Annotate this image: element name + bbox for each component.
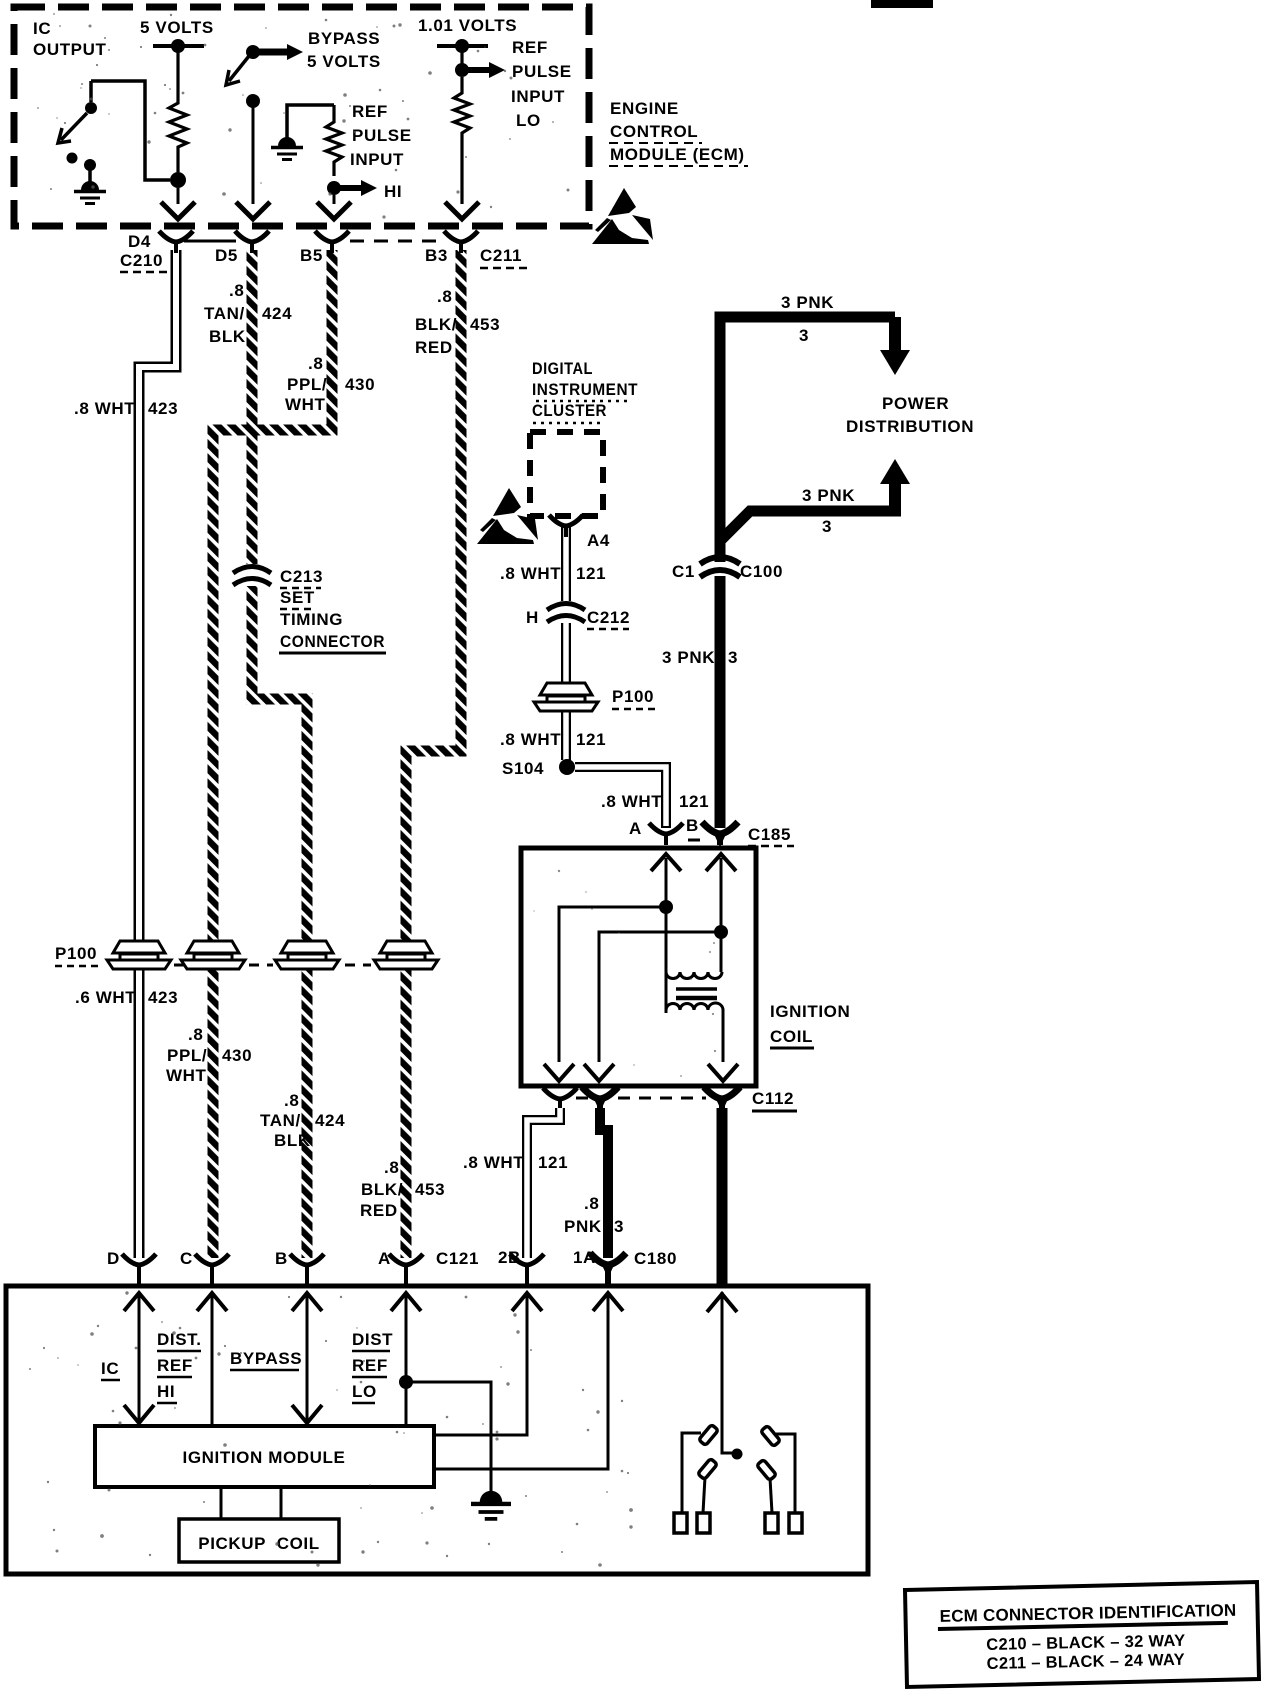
ignition coil box: [521, 848, 756, 1086]
svg-text:WHT: WHT: [166, 1066, 207, 1085]
arrow up (BYPASS): [292, 1293, 322, 1311]
cap terminal 2: [697, 1513, 710, 1533]
svg-text:A4: A4: [587, 531, 610, 550]
wire 3 PNK main feed (thick): [720, 317, 901, 541]
svg-text:.6 WHT: .6 WHT: [75, 988, 136, 1007]
resistor R1 (5 volts pull-up): [169, 49, 187, 172]
arrow down (coil second terminal): [584, 1064, 614, 1081]
svg-text:DIST.: DIST.: [157, 1330, 202, 1349]
wire cap terminal 4: [776, 1434, 795, 1513]
svg-text:D5: D5: [215, 246, 238, 265]
svg-text:C1: C1: [672, 562, 695, 581]
svg-text:IC: IC: [101, 1359, 119, 1378]
svg-text:5 VOLTS: 5 VOLTS: [307, 52, 381, 71]
svg-text:CLUSTER: CLUSTER: [532, 401, 607, 420]
arrow to power distribution (upper): [889, 317, 901, 352]
svg-text:TAN/: TAN/: [260, 1111, 301, 1130]
svg-text:D4: D4: [128, 232, 151, 251]
svg-text:423: 423: [148, 399, 178, 418]
svg-text:RED: RED: [415, 338, 453, 357]
wire cap terminal 3: [770, 1478, 772, 1513]
grommet P100 (cluster wire): [534, 683, 598, 711]
connector D5: [235, 231, 269, 253]
svg-text:B5: B5: [300, 246, 323, 265]
svg-text:IGNITION MODULE: IGNITION MODULE: [183, 1448, 346, 1467]
connector C1 / C100: [706, 562, 736, 576]
wire 121 .8 WHT cluster to S104 (double line): [561, 525, 571, 760]
cap terminal 4: [789, 1513, 802, 1533]
svg-text:.8 WHT: .8 WHT: [500, 730, 561, 749]
arrow up (tower lead): [707, 1294, 737, 1312]
wire .8 PNK C112 to 1A (thick): [600, 1108, 608, 1258]
svg-text:CONTROL: CONTROL: [610, 122, 698, 141]
wire 424 .8 TAN/BLK (hatched) from D5: [252, 250, 307, 1258]
svg-text:3: 3: [822, 517, 832, 536]
svg-text:C211: C211: [480, 246, 522, 265]
wire 453 .8 BLK/RED (hatched) from B3: [406, 250, 461, 1258]
arrow up (DIST REF HI): [197, 1293, 227, 1311]
svg-text:CONNECTOR: CONNECTOR: [280, 632, 385, 651]
wire 423 .8 WHT (double line) from D4: [139, 250, 176, 1258]
wire link D4-D5: [184, 240, 236, 243]
connector C121 pin B: [290, 1254, 324, 1276]
arrow down (BYPASS): [292, 1405, 322, 1423]
wire module to pickup coil (right): [280, 1487, 283, 1519]
rotor center: [732, 1449, 743, 1460]
svg-text:C121: C121: [436, 1249, 479, 1268]
dashed links between grommets: [174, 964, 184, 967]
svg-text:DISTRIBUTION: DISTRIBUTION: [846, 417, 974, 436]
connector C121 pin C: [195, 1254, 229, 1276]
wire 121 .8 WHT S104 to C185-A (double line): [575, 767, 666, 828]
rotor contact lower-right: [757, 1459, 777, 1480]
svg-text:430: 430: [222, 1046, 252, 1065]
arrow down (coil tower terminal): [708, 1064, 738, 1081]
svg-text:.8 WHT: .8 WHT: [463, 1153, 524, 1172]
svg-text:MODULE (ECM): MODULE (ECM): [610, 145, 745, 164]
svg-text:430: 430: [345, 375, 375, 394]
arrow down (pin B5 inside ECM): [317, 202, 351, 219]
connector C112 right: [704, 1087, 740, 1112]
wire module to 2B: [434, 1292, 527, 1435]
svg-text:ENGINE: ENGINE: [610, 99, 679, 118]
dashed link A-B: [688, 839, 700, 842]
connector B3 of C211: [444, 231, 478, 253]
wire cap terminal 2: [703, 1477, 705, 1513]
svg-text:REF: REF: [512, 38, 548, 57]
svg-text:453: 453: [415, 1180, 445, 1199]
svg-text:DIST: DIST: [352, 1330, 393, 1349]
svg-text:LO: LO: [352, 1382, 377, 1401]
svg-text:3 PNK: 3 PNK: [781, 293, 834, 312]
svg-text:B: B: [686, 816, 699, 835]
svg-text:.8 WHT: .8 WHT: [601, 792, 662, 811]
svg-text:INPUT: INPUT: [350, 150, 404, 169]
svg-text:IGNITION: IGNITION: [770, 1002, 850, 1021]
connector C180 pin 1A: [590, 1253, 626, 1278]
connector D4 of C210: [159, 231, 193, 253]
arrow down (IC): [124, 1405, 154, 1423]
wire to internal ground: [406, 1382, 491, 1500]
svg-text:3 PNK: 3 PNK: [802, 486, 855, 505]
svg-text:REF: REF: [352, 102, 388, 121]
svg-text:P100: P100: [55, 944, 97, 963]
svg-text:WHT: WHT: [285, 395, 326, 414]
wire coil tower to distributor (thick): [717, 1108, 728, 1286]
svg-text:PULSE: PULSE: [352, 126, 412, 145]
wire coil B lead: [720, 858, 723, 972]
coil primary winding: [666, 972, 722, 979]
svg-text:3 PNK: 3 PNK: [662, 648, 715, 667]
svg-text:REF: REF: [352, 1356, 388, 1375]
svg-text:.8: .8: [284, 1091, 299, 1110]
svg-text:B: B: [275, 1249, 288, 1268]
connector C121 pin D: [122, 1254, 156, 1276]
svg-text:2B: 2B: [498, 1248, 521, 1267]
svg-text:OUTPUT: OUTPUT: [33, 40, 106, 59]
ground (ref pulse input): [271, 137, 303, 160]
svg-text:POWER: POWER: [882, 394, 949, 413]
distributor assembly box: [6, 1286, 868, 1574]
wire to ground: [88, 170, 92, 188]
svg-text:3: 3: [728, 648, 738, 667]
scan speckle noise: [29, 13, 716, 1567]
wire bypass column to pin D5: [252, 101, 255, 204]
wire IC lead: [138, 1292, 141, 1424]
arrow to power distribution (lower): [889, 482, 901, 511]
svg-text:PPL/: PPL/: [287, 375, 327, 394]
svg-text:PPL/: PPL/: [167, 1046, 207, 1065]
wire ref pulse input bracket: [287, 105, 334, 142]
svg-text:A: A: [629, 819, 642, 838]
switch contact dots: [67, 153, 78, 164]
svg-text:1A: 1A: [573, 1248, 596, 1267]
svg-text:TAN/: TAN/: [204, 304, 245, 323]
svg-text:BLK/: BLK/: [361, 1180, 403, 1199]
ESD symbol at cluster: [477, 488, 538, 544]
arrow up (DIST REF LO): [391, 1293, 421, 1311]
wire 430 .8 PPL/WHT (hatched) from B5: [213, 250, 332, 1258]
ECM dashed enclosure box: [14, 7, 589, 226]
svg-text:BYPASS: BYPASS: [230, 1349, 302, 1368]
node coil A junction: [659, 900, 673, 914]
switch IC output driver: [89, 81, 93, 102]
svg-text:B3: B3: [425, 246, 448, 265]
svg-text:BLK: BLK: [274, 1131, 311, 1150]
rotor contact upper-right: [761, 1425, 781, 1446]
svg-text:121: 121: [538, 1153, 568, 1172]
svg-text:HI: HI: [384, 182, 402, 201]
wire 121 .8 WHT C112 to 2B (double line): [527, 1108, 560, 1258]
arrow up (coil A inside): [651, 854, 681, 871]
arrow up (IC): [124, 1293, 154, 1311]
svg-text:.8: .8: [437, 287, 452, 306]
connector C212 pin H: [554, 601, 578, 623]
connector B5: [315, 231, 349, 253]
svg-text:HI: HI: [157, 1382, 175, 1401]
svg-text:PICKUP COIL: PICKUP COIL: [198, 1534, 320, 1553]
svg-text:P100: P100: [612, 687, 654, 706]
ground (distributor): [471, 1491, 511, 1519]
svg-text:121: 121: [576, 730, 606, 749]
wire DIST REF LO lead: [405, 1292, 408, 1426]
wire coil A lead: [665, 858, 668, 1013]
svg-text:C212: C212: [587, 608, 630, 627]
svg-text:3: 3: [614, 1217, 624, 1236]
wire BYPASS lead: [306, 1292, 309, 1424]
ground (IC output): [74, 181, 106, 204]
node BYPASS output: [246, 45, 260, 59]
scan artifact bar top edge: [871, 0, 933, 8]
svg-text:IC: IC: [33, 19, 51, 38]
cap terminal 1: [674, 1513, 687, 1533]
svg-text:C100: C100: [740, 562, 783, 581]
node ref pulse HI: [327, 181, 341, 195]
connector C121 pin A: [389, 1254, 423, 1276]
connector stems to distributor box: [139, 1267, 527, 1287]
pickup coil box: [179, 1519, 339, 1562]
wire IC output link: [91, 81, 170, 180]
svg-text:423: 423: [148, 988, 178, 1007]
svg-text:BLK: BLK: [209, 327, 246, 346]
arrow up (2B lead): [512, 1293, 542, 1311]
wire secondary to tower terminal: [722, 1010, 725, 1062]
svg-text:.8: .8: [188, 1025, 203, 1044]
svg-text:BLK/: BLK/: [415, 315, 457, 334]
svg-text:424: 424: [315, 1111, 345, 1130]
svg-text:COIL: COIL: [770, 1027, 813, 1046]
svg-text:RED: RED: [360, 1201, 398, 1220]
wire DIST REF HI lead: [211, 1292, 214, 1426]
coil secondary winding: [666, 1003, 723, 1010]
wire module to 1A: [434, 1292, 608, 1469]
svg-text:C185: C185: [748, 825, 791, 844]
svg-text:3: 3: [799, 326, 809, 345]
connector C112 middle: [582, 1087, 618, 1112]
wire 5V column to pin D4: [177, 188, 180, 204]
node DIST REF LO ground tap: [399, 1375, 413, 1389]
svg-text:D: D: [107, 1249, 120, 1268]
resistor R3 (1.01 volts): [454, 77, 470, 204]
svg-text:5 VOLTS: 5 VOLTS: [140, 18, 214, 37]
rotor contact upper-left: [699, 1424, 719, 1445]
svg-text:TIMING: TIMING: [280, 610, 343, 629]
svg-text:SET: SET: [280, 588, 315, 607]
arrow down (coil left terminal): [544, 1064, 574, 1081]
rotor contact lower-left: [698, 1458, 718, 1479]
switch bypass arm: [229, 56, 249, 81]
svg-text:DIGITAL: DIGITAL: [532, 359, 593, 378]
svg-text:PULSE: PULSE: [512, 62, 572, 81]
wire coil tower to rotor: [722, 1292, 732, 1453]
arrow down (pin D4 inside ECM): [161, 202, 195, 219]
svg-text:453: 453: [470, 315, 500, 334]
connector C180 pin 2B: [510, 1254, 544, 1276]
coil core: [676, 987, 717, 991]
splice S104: [559, 759, 575, 775]
svg-text:REF: REF: [157, 1356, 193, 1375]
resistor R2 (ref pulse input): [326, 105, 342, 176]
arrow up (coil B inside): [706, 854, 736, 871]
svg-text:S104: S104: [502, 759, 544, 778]
svg-text:.8: .8: [584, 1194, 599, 1213]
wire B junction to second terminal: [599, 932, 721, 1062]
connector A4: [549, 515, 583, 537]
svg-text:INPUT: INPUT: [511, 87, 565, 106]
svg-text:1.01 VOLTS: 1.01 VOLTS: [418, 16, 517, 35]
svg-text:C112: C112: [752, 1089, 794, 1108]
svg-text:.8: .8: [229, 281, 244, 300]
ignition module box: [95, 1426, 434, 1487]
digital instrument cluster dashed box: [530, 432, 603, 516]
wire module to pickup coil (left): [220, 1487, 223, 1519]
arrow up (1A lead): [593, 1293, 623, 1311]
svg-text:.8 WHT: .8 WHT: [74, 399, 135, 418]
wire A junction to left terminal: [559, 907, 666, 1062]
svg-text:.8 WHT: .8 WHT: [500, 564, 561, 583]
ECM connector identification box: [905, 1582, 1259, 1687]
grommet row P100: [107, 941, 171, 969]
svg-text:PNK: PNK: [564, 1217, 602, 1236]
connector C185 pin B: [702, 822, 738, 847]
arrow down (pin D5 inside ECM): [236, 202, 270, 219]
node ref pulse LO tap: [455, 63, 469, 77]
node bypass column top: [246, 94, 260, 108]
arrow down (pin B3 inside ECM): [445, 202, 479, 219]
wire cap terminal 1: [682, 1433, 701, 1513]
dashed link C112: [576, 1097, 706, 1100]
svg-text:.8: .8: [384, 1158, 399, 1177]
svg-text:LO: LO: [516, 111, 541, 130]
cap terminal 3: [765, 1513, 778, 1533]
svg-text:H: H: [526, 608, 539, 627]
svg-text:C180: C180: [634, 1249, 677, 1268]
svg-text:121: 121: [679, 792, 709, 811]
dashed link B5-B3: [350, 240, 443, 243]
node coil B junction: [714, 925, 728, 939]
node IC output junction: [170, 172, 186, 188]
svg-text:C: C: [180, 1249, 193, 1268]
wire to pin B5: [333, 195, 336, 204]
ESD symbol at ECM: [592, 188, 653, 244]
svg-text:INSTRUMENT: INSTRUMENT: [532, 380, 638, 399]
connector C213 set timing: [240, 564, 264, 586]
svg-text:BYPASS: BYPASS: [308, 29, 380, 48]
svg-text:424: 424: [262, 304, 292, 323]
svg-text:.8: .8: [308, 354, 323, 373]
connector C112 left: [543, 1088, 577, 1110]
svg-text:121: 121: [576, 564, 606, 583]
svg-text:C210: C210: [120, 251, 163, 270]
svg-text:C213: C213: [280, 567, 323, 586]
svg-text:A: A: [378, 1249, 391, 1268]
connector C185 pin A: [649, 823, 683, 845]
